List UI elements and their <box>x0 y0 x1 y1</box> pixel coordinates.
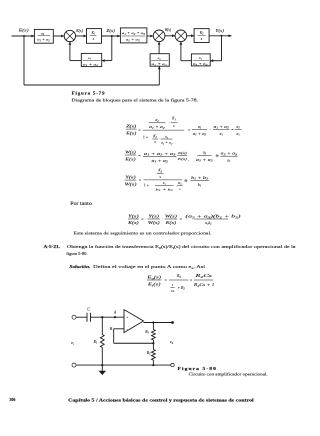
svg-text:a2​: a2​ <box>237 125 241 130</box>
svg-text:E(s): E(s) <box>127 220 140 225</box>
svg-text:s: s <box>154 140 156 144</box>
svg-text:E(s): E(s) <box>164 220 177 225</box>
svg-text:Ea​(s): Ea​(s) <box>146 274 162 280</box>
svg-text:a1​ + a2​: a1​ + a2​ <box>214 125 230 130</box>
svg-text:a1​: a1​ <box>227 158 231 163</box>
svg-text:s: s <box>173 124 175 128</box>
svg-text:+: + <box>126 316 128 320</box>
svg-text:1: 1 <box>172 283 174 287</box>
svg-text:a1​ + a2​: a1​ + a2​ <box>196 158 214 163</box>
svg-text:R1​: R1​ <box>93 340 98 345</box>
svg-text:a1​ + a2​: a1​ + a2​ <box>149 125 166 130</box>
svg-text:R2​Cs: R2​Cs <box>193 274 213 279</box>
svg-text:e0​: e0​ <box>170 340 174 345</box>
svg-text:s: s <box>159 175 161 179</box>
svg-text:·: · <box>169 120 170 125</box>
svg-text:Cs: Cs <box>171 289 175 293</box>
svg-text:a2​: a2​ <box>41 31 45 36</box>
svg-text:figura 5-80.: figura 5-80. <box>66 251 87 256</box>
svg-text:K1​: K1​ <box>91 31 96 36</box>
svg-text:≅: ≅ <box>184 179 187 183</box>
svg-text:s: s <box>201 37 203 41</box>
svg-text:a1​: a1​ <box>165 135 168 140</box>
svg-text:,: , <box>188 157 189 162</box>
svg-text:=: = <box>138 127 141 132</box>
svg-text:Por tanto: Por tanto <box>70 202 92 207</box>
svg-text:E(s): E(s) <box>124 156 136 161</box>
svg-text:1 +: 1 + <box>143 135 149 140</box>
svg-text:a3​: a3​ <box>203 151 207 156</box>
svg-text:ei​: ei​ <box>71 341 74 346</box>
svg-text:W(s): W(s) <box>125 149 136 154</box>
svg-text:R2​: R2​ <box>146 351 151 356</box>
svg-text:a1​ + a2​: a1​ + a2​ <box>193 132 207 137</box>
svg-text:a1​: a1​ <box>237 132 241 137</box>
svg-text:1 +: 1 + <box>144 183 150 188</box>
svg-text:R2​: R2​ <box>176 274 181 279</box>
svg-text:Capítulo 5 / Acciones bási: Capítulo 5 / Acciones básicas de control… <box>68 397 255 402</box>
svg-text:a1​ + a2​ + a3​: a1​ + a2​ + a3​ <box>122 31 146 36</box>
svg-text:W(s): W(s) <box>165 214 178 219</box>
svg-text:Defina el voltaje en el punto: Defina el voltaje en el punto A como ea​… <box>93 264 206 270</box>
svg-text:a2​: a2​ <box>155 118 159 123</box>
svg-text:a3​: a3​ <box>158 56 162 61</box>
svg-text:=: = <box>188 127 191 132</box>
svg-text:=: = <box>138 153 141 158</box>
svg-text:b1​: b1​ <box>198 183 202 188</box>
svg-text:R2​: R2​ <box>144 330 149 335</box>
svg-text:A-5-21.: A-5-21. <box>44 244 61 249</box>
svg-text:·: · <box>176 183 177 188</box>
svg-text:b1​: b1​ <box>163 181 166 186</box>
svg-text:a1​ + a2​: a1​ + a2​ <box>152 159 169 164</box>
svg-text:K2​: K2​ <box>157 169 162 174</box>
svg-text:Y(s): Y(s) <box>215 28 224 33</box>
svg-text:·: · <box>175 155 176 160</box>
svg-text:Y(s): Y(s) <box>128 214 139 219</box>
svg-text:K1​: K1​ <box>152 134 157 139</box>
svg-text:B: B <box>110 327 113 331</box>
svg-text:a1​ + a2​ + a3​: a1​ + a2​ + a3​ <box>144 152 177 157</box>
svg-text:Z(s): Z(s) <box>126 124 137 129</box>
svg-text:K2​: K2​ <box>177 181 182 186</box>
svg-text:Y(s): Y(s) <box>125 175 136 180</box>
svg-text:a1​ + a2​: a1​ + a2​ <box>37 38 50 43</box>
svg-text:a1​ + a2​: a1​ + a2​ <box>161 141 173 146</box>
svg-text:=: = <box>165 277 168 282</box>
svg-text:Z(s): Z(s) <box>178 151 188 155</box>
svg-text:Circuito con amplificador oper: Circuito con amplificador operacional. <box>189 371 268 376</box>
svg-text:C: C <box>87 306 90 311</box>
svg-text:E(s): E(s) <box>125 131 137 136</box>
svg-text:s: s <box>93 37 95 41</box>
svg-text:Z(s): Z(s) <box>106 28 115 33</box>
svg-text:306: 306 <box>9 397 16 402</box>
svg-text:a1​: a1​ <box>88 56 91 61</box>
svg-text:a1​ + a2​: a1​ + a2​ <box>126 38 141 43</box>
svg-text:·: · <box>162 216 163 221</box>
svg-text:E(s): E(s) <box>75 29 83 33</box>
svg-text:a1​b1​: a1​b1​ <box>205 221 212 226</box>
svg-text:s: s <box>179 187 181 191</box>
svg-text:A: A <box>113 310 117 314</box>
svg-text:K1​: K1​ <box>171 117 176 122</box>
svg-text:E(s): E(s) <box>17 28 29 33</box>
svg-text:Este sistema de seguimiento es: Este sistema de seguimiento es un contro… <box>74 231 212 236</box>
svg-text:R2​Cs + 1: R2​Cs + 1 <box>192 283 214 288</box>
svg-text:W(s): W(s) <box>148 220 161 225</box>
svg-text:=: = <box>141 217 144 222</box>
svg-text:Diagrama de bloques para el si: Diagrama de bloques para el sistema de l… <box>71 97 198 102</box>
svg-text:(a2​ + a3​)(b1​ + b2​): (a2​ + a3​)(b1​ + b2​) <box>186 215 243 220</box>
svg-text:·: · <box>210 127 211 132</box>
svg-text:a1​: a1​ <box>220 132 224 137</box>
svg-text:W(s): W(s) <box>125 182 138 187</box>
svg-text:+ R2​: + R2​ <box>178 286 186 291</box>
svg-text:a2​: a2​ <box>198 125 202 130</box>
svg-text:−: − <box>126 328 128 332</box>
svg-text:b1​ + b2​: b1​ + b2​ <box>156 187 174 192</box>
svg-text:b1​: b1​ <box>199 56 202 61</box>
svg-text:Y(s): Y(s) <box>148 214 159 219</box>
svg-text:≅: ≅ <box>216 154 219 158</box>
svg-text:=: = <box>180 217 183 222</box>
svg-text:W(s): W(s) <box>165 28 172 32</box>
svg-text:Solución.: Solución. <box>69 264 90 269</box>
svg-text:Figura 5-79: Figura 5-79 <box>72 91 106 96</box>
svg-text:=: = <box>139 178 142 183</box>
svg-text:a2​ + a3​: a2​ + a3​ <box>221 152 239 157</box>
svg-text:K2​: K2​ <box>199 31 204 36</box>
svg-text:=: = <box>231 127 234 132</box>
svg-text:b1​ + b2​: b1​ + b2​ <box>191 176 209 181</box>
svg-text:E(s): E(s) <box>176 157 188 161</box>
svg-text:Obtenga la función de transfer: Obtenga la función de transferencia E0​(… <box>67 244 296 250</box>
svg-text:Ei​(s): Ei​(s) <box>146 281 161 287</box>
svg-text:=: = <box>190 277 193 282</box>
